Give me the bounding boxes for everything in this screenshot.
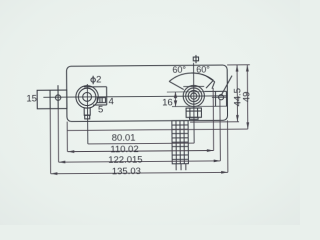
16 dim arrows bbox=[174, 92, 177, 98]
rotor housing top chord bbox=[183, 85, 204, 87]
dim line 110.02 bbox=[68, 151, 214, 152]
left mounting hole bbox=[55, 95, 60, 100]
main horizontal centerline bbox=[43, 96, 227, 97]
sector right edge bbox=[206, 80, 213, 88]
right rotor circle 3 bbox=[188, 90, 199, 101]
phi2 leader stroke bbox=[92, 76, 94, 84]
16 dim double arrow shaft bbox=[174, 92, 176, 106]
step plate tick 1 bbox=[99, 98, 101, 103]
110.02 arrows bbox=[68, 150, 75, 153]
pivot crosshair horizontal bbox=[212, 96, 227, 98]
sector step extension down bbox=[212, 88, 214, 150]
bushing housing bottom edge bbox=[93, 104, 107, 106]
44.5 bottom reference line bbox=[190, 121, 239, 123]
boss right edge bbox=[225, 91, 227, 106]
lever side step bbox=[212, 82, 215, 89]
svg-text:49: 49 bbox=[241, 92, 252, 103]
pivot hole bbox=[218, 95, 223, 100]
bushing step plate bbox=[97, 98, 105, 103]
shaft inner line right bbox=[197, 108, 199, 117]
left shaft stem bbox=[84, 108, 90, 115]
connector pins bbox=[176, 164, 186, 171]
sector arc of lever travel bbox=[169, 73, 213, 82]
svg-text:122.015: 122.015 bbox=[108, 154, 142, 165]
122.015 arrows bbox=[59, 161, 66, 164]
boss left edge bbox=[214, 91, 216, 106]
boss top line bbox=[204, 90, 226, 92]
pivot extension down bbox=[219, 100, 221, 161]
shaft inner line left bbox=[189, 108, 191, 117]
boss slot top extension to left bbox=[167, 91, 204, 93]
svg-text:135.03: 135.03 bbox=[112, 166, 141, 177]
svg-text:4: 4 bbox=[109, 96, 114, 107]
dim line 80.01 bbox=[88, 142, 194, 145]
svg-text:80.01: 80.01 bbox=[112, 133, 136, 144]
svg-text:5: 5 bbox=[98, 105, 103, 116]
49 bottom reference long line bbox=[67, 129, 248, 130]
tab hole extension down bbox=[57, 109, 59, 162]
svg-text:16: 16 bbox=[162, 97, 173, 108]
44.5 dim vertical bbox=[236, 65, 238, 122]
left circle vertical centerline / 80.01 extension bbox=[86, 84, 88, 144]
dim line 122.015 bbox=[59, 161, 221, 162]
bushing housing top edge bbox=[84, 86, 107, 88]
rotor vertical centerline from top marker down bbox=[193, 63, 196, 143]
body right edge extension down bbox=[226, 120, 228, 172]
svg-text:60°: 60° bbox=[172, 65, 186, 75]
shaft foot bbox=[190, 117, 199, 119]
connector block grid bbox=[172, 121, 189, 164]
center marker zhong bar bbox=[195, 55, 197, 63]
step plate tick 2 bbox=[101, 98, 103, 103]
tab inner vertical line bbox=[49, 90, 51, 108]
body left edge extension down bbox=[66, 122, 68, 152]
left mounting tab bbox=[37, 90, 67, 109]
left bushing ring bbox=[78, 88, 96, 106]
49 dim vertical bbox=[246, 65, 249, 129]
main body rounded rectangle bbox=[67, 65, 228, 122]
center marker zhong box bbox=[193, 57, 198, 61]
shaft mid horizontal bbox=[186, 110, 201, 112]
svg-text:2: 2 bbox=[96, 74, 101, 85]
lever pointer line bbox=[221, 76, 232, 95]
rotor shaft rectangle bbox=[186, 108, 201, 117]
right rotor circle 1 bbox=[183, 85, 204, 106]
boss bottom line bbox=[172, 105, 227, 107]
left shaft foot bbox=[85, 115, 90, 119]
arrowheads bbox=[50, 65, 250, 175]
44.5 arrows bbox=[236, 65, 239, 72]
135.03 arrows bbox=[51, 172, 58, 175]
dimension lines bbox=[50, 65, 251, 174]
49 arrows bbox=[246, 65, 249, 72]
right rotor circle 4 bbox=[191, 93, 197, 99]
svg-text:15: 15 bbox=[26, 93, 37, 104]
phi symbol circle bbox=[91, 78, 95, 82]
top line right extension bbox=[227, 64, 250, 66]
left mounting hole vertical centerline bbox=[57, 85, 59, 108]
left bushing outer circle bbox=[76, 86, 99, 109]
tab inner line extension down bbox=[49, 109, 52, 174]
sector left edge bbox=[169, 81, 184, 89]
left bushing hub bbox=[83, 92, 92, 101]
svg-text:60°: 60° bbox=[196, 65, 210, 75]
bushing housing right edge bbox=[106, 87, 108, 105]
dim line 135.03 bbox=[51, 172, 228, 173]
lever cap edge at 60 deg bbox=[206, 76, 214, 82]
right rotor circle 2 bbox=[186, 88, 202, 104]
